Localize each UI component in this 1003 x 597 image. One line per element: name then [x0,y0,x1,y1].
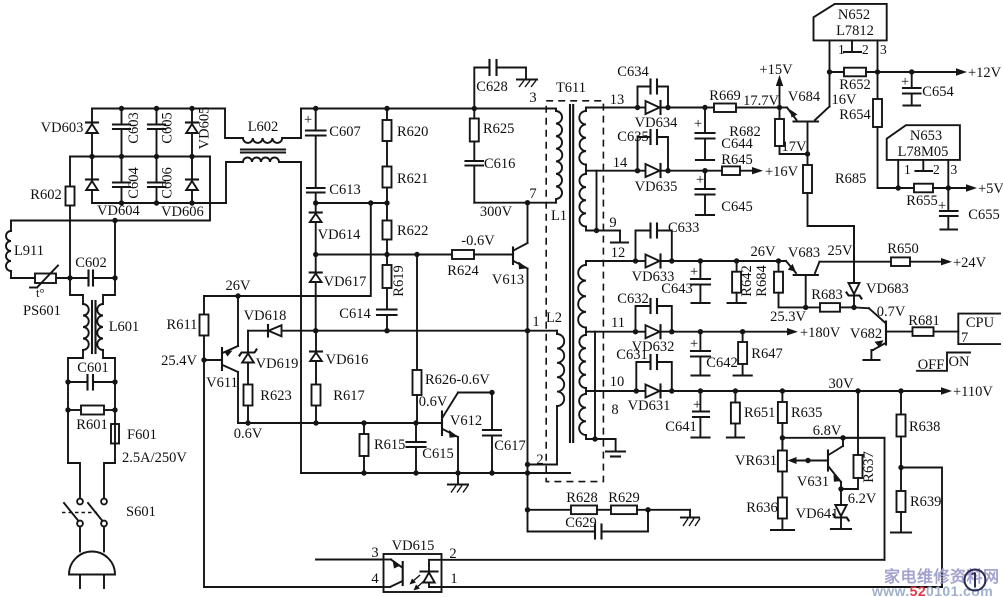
svg-text:+180V: +180V [800,325,841,341]
diode VD616 [310,331,368,385]
svg-text:1: 1 [450,571,457,587]
wire mid rail drop to AC node [11,157,210,221]
svg-text:+16V: +16V [765,164,799,180]
zener VD641 [796,489,851,529]
potentiometer VR631 [735,438,828,498]
node top rail junctions [119,106,124,111]
svg-text:+12V: +12V [968,65,1002,81]
svg-text:C605: C605 [160,112,176,143]
svg-text:VD605: VD605 [197,107,213,150]
wire to switch right [104,463,115,499]
resistor R621 [383,167,429,204]
inductor L601 common mode choke [83,301,139,353]
capacitor C641 [665,388,709,437]
svg-text:+: + [696,172,704,188]
svg-text:R654: R654 [839,107,871,123]
wire row B1 26V line [636,260,646,262]
svg-text:R624: R624 [447,263,479,279]
wire sense to opto line1 [901,468,942,588]
wire 25V line [820,261,892,263]
transistor V611 [204,296,238,423]
svg-text:C655: C655 [968,207,999,223]
diode VD633 [632,255,786,286]
svg-text:R625: R625 [483,121,514,137]
svg-text:VD606: VD606 [161,204,204,220]
svg-text:C642: C642 [706,355,737,371]
resistor R624 [447,250,513,279]
diode VD617 [310,255,367,331]
svg-text:26V: 26V [751,244,777,260]
wire L601 right down [103,350,115,424]
resistor R685 [803,154,866,283]
svg-text:C601: C601 [77,360,108,376]
svg-text:V682: V682 [850,326,882,342]
svg-text:t°: t° [36,286,44,300]
svg-text:3: 3 [371,545,378,561]
resistor R602 [30,157,74,279]
svg-text:C654: C654 [922,84,954,100]
svg-text:C607: C607 [329,124,360,140]
svg-text:+5V: +5V [978,181,1003,197]
resistor R654 [839,72,882,188]
svg-text:14: 14 [613,155,628,171]
resistor R629 [608,490,690,514]
arrow +12V [956,65,1002,81]
resistor R683 [806,287,854,312]
waveform OFF ON [917,353,970,374]
svg-text:1: 1 [838,42,845,57]
svg-text:VD683: VD683 [866,281,909,297]
wire row C +110V line [636,390,645,392]
circled mark [965,570,986,591]
diode VD603 [41,109,98,157]
svg-text:C632: C632 [617,291,648,307]
wire opto pin3 feed [316,559,384,561]
wire main +300V rail [301,108,556,110]
diode VD618 [244,308,287,337]
svg-text:R620: R620 [397,124,428,140]
IC N652 L7812 [814,4,888,72]
wire V613 emitter to pin2 column [527,331,529,510]
svg-text:R601: R601 [76,417,107,433]
svg-text:VD618: VD618 [244,308,287,324]
wire pin 10 [586,390,636,392]
wire top rectifier rail [92,108,225,110]
diode VD614 [310,203,361,255]
arrow +110V [898,384,993,400]
wire bottom rectifier rail [92,202,226,204]
resistor R611 [167,296,209,587]
svg-text:R682: R682 [729,124,760,140]
wire 26V tap [204,203,371,296]
svg-text:R638: R638 [909,419,940,435]
resistor R637 [841,388,877,489]
wire pin 11 [586,331,636,333]
arrow +24V [941,255,987,271]
svg-text:R617: R617 [333,388,364,404]
svg-text:+24V: +24V [953,255,987,271]
svg-text:16V: 16V [832,92,858,108]
svg-text:26V: 26V [226,278,252,294]
svg-text:VD614: VD614 [318,227,361,243]
arrow +180V [787,325,841,341]
svg-text:V684: V684 [788,89,821,105]
svg-text:R629: R629 [608,490,639,506]
diode VD632 [632,325,788,355]
svg-text:R637: R637 [861,451,877,482]
svg-text:R647: R647 [751,346,782,362]
transistor V684 [780,72,830,154]
capacitor C628 [474,60,526,109]
resistor R651 [727,388,776,437]
wire to switch left [68,463,80,499]
node AC line junction [112,218,117,223]
wire C613-VD614 node to R621 node [316,202,387,204]
svg-text:R681: R681 [908,313,939,329]
svg-text:C633: C633 [668,220,699,236]
capacitor C614 [339,306,396,331]
svg-text:V613: V613 [492,272,524,288]
svg-text:C631: C631 [616,347,647,363]
fuse F601 2.5A/250V [111,424,187,466]
svg-text:L78M05: L78M05 [898,144,949,160]
capacitor C604 [113,157,142,204]
wire pin 9 node [586,230,620,232]
svg-text:F601: F601 [127,427,157,443]
svg-text:0.6V: 0.6V [234,426,263,442]
svg-text:C641: C641 [665,419,696,435]
wire L602 top feed [225,109,243,139]
wire opto pin4 feed [204,586,384,588]
winding secondary 11-10 [579,332,586,391]
resistor R650 [887,241,948,266]
svg-text:C635: C635 [617,129,648,145]
svg-text:R655: R655 [906,193,937,209]
capacitor C635 [617,129,668,171]
svg-text:R650: R650 [887,241,918,257]
svg-text:13: 13 [610,92,625,108]
svg-text:6.2V: 6.2V [848,491,877,507]
svg-text:R619: R619 [391,265,407,296]
wire middle rectifier rail [70,156,210,158]
ground pin 8 [606,439,625,457]
svg-text:R639: R639 [910,494,941,510]
transistor V613 [492,203,528,331]
diode VD635 [635,164,705,195]
winding L1 primary [551,109,567,225]
svg-text:7: 7 [529,186,536,202]
svg-text:L602: L602 [248,119,279,135]
CPU box [958,314,1000,346]
winding L2 feedback [546,310,564,465]
wire L601 left down [68,350,83,463]
svg-text:R626-0.6V: R626-0.6V [425,372,490,388]
svg-text:C606: C606 [160,167,176,198]
capacitor C643 [661,258,710,303]
svg-text:VD635: VD635 [635,179,678,195]
svg-text:L601: L601 [109,319,140,335]
wire V612 collector [458,392,492,394]
transistor V631 [797,438,844,492]
wire +5V rail [878,187,915,189]
capacitor C601 [65,360,117,390]
svg-text:+: + [304,112,312,128]
svg-text:300V: 300V [480,204,513,220]
svg-text:C628: C628 [476,79,507,95]
resistor R619 [383,255,408,310]
wire +12V rail [830,71,845,73]
svg-text:C614: C614 [339,306,371,322]
svg-text:17V: 17V [782,139,808,155]
svg-text:R636: R636 [746,500,777,516]
resistor R639 [891,491,941,533]
capacitor C654 [901,72,954,106]
ground C628 [517,80,537,88]
svg-text:C604: C604 [126,167,142,199]
wire winding to VD633 row [586,260,636,262]
svg-text:C643: C643 [661,281,692,297]
svg-text:ON: ON [949,354,970,370]
svg-text:VD619: VD619 [256,356,299,372]
resistor R626 [413,255,491,424]
svg-text:C615: C615 [422,446,453,462]
svg-text:R621: R621 [397,171,428,187]
svg-text:25V: 25V [828,243,854,259]
wire pin 8 [586,438,616,440]
winding secondary 14-9 [579,171,586,231]
svg-text:VR631: VR631 [735,453,777,469]
winding secondary 13-14 [579,108,586,171]
svg-text:+: + [690,336,698,352]
node 25.4V [201,357,206,362]
svg-text:VD631: VD631 [628,398,671,414]
optocoupler VD615 [371,538,457,592]
svg-text:1: 1 [904,162,911,177]
resistor R681 [908,313,958,336]
capacitor C602 [75,255,115,286]
svg-text:R642: R642 [739,265,755,296]
svg-text:2: 2 [862,42,869,57]
pin 2 wire [528,464,558,466]
transistor V683 [786,245,820,310]
svg-text:C602: C602 [75,255,106,271]
wire row A pin13 to VD634 [638,107,646,109]
thermistor PS601 [23,266,61,320]
transformer T611 dashed box [546,101,603,482]
resistor R655 [906,184,973,209]
svg-text:C616: C616 [484,156,515,172]
capacitor C616 [466,156,516,203]
svg-text:R651: R651 [744,405,775,421]
wire pin 14 [586,170,638,172]
svg-text:6.8V: 6.8V [813,423,842,439]
svg-text:L2: L2 [546,310,562,326]
wire AC lower node line [11,277,35,279]
capacitor C655 [938,188,1000,230]
IC N653 L78M05 [887,125,960,188]
svg-text:R683: R683 [811,287,842,303]
svg-text:VD604: VD604 [97,203,140,219]
svg-text:T611: T611 [556,80,586,96]
svg-text:+: + [901,74,909,90]
svg-text:S601: S601 [126,504,156,520]
svg-text:VD615: VD615 [392,538,435,554]
inductor L911 [6,221,44,279]
resistor R652 [839,68,963,93]
resistor R645 [705,152,753,175]
wire row B +180V line [636,331,646,333]
resistor R620 [383,109,429,167]
svg-text:N652: N652 [838,7,870,23]
svg-text:R623: R623 [260,388,291,404]
svg-text:3: 3 [951,162,958,177]
svg-text:R669: R669 [709,88,740,104]
diode VD631 [628,385,948,415]
resistor R682 [729,108,810,157]
svg-text:11: 11 [611,315,625,331]
capacitor C615 [407,423,454,473]
svg-text:R628: R628 [566,490,597,506]
transistor V612 [442,393,482,474]
svg-text:C613: C613 [329,182,360,198]
capacitor C633 [636,220,700,261]
diode VD604 [86,157,140,220]
svg-text:R652: R652 [839,77,870,93]
capacitor C613 [307,182,361,203]
arrow +16V [752,164,799,180]
svg-text:30V: 30V [829,376,855,392]
svg-text:2: 2 [536,452,543,468]
ground R629 [681,510,700,526]
wire VD614 anode row [316,254,452,256]
capacitor C617 [483,393,526,474]
svg-text:R635: R635 [791,405,822,421]
svg-text:L1: L1 [551,208,567,224]
svg-text:+: + [694,116,702,132]
svg-text:3: 3 [529,90,536,106]
svg-text:V612: V612 [450,413,482,429]
svg-text:25.4V: 25.4V [161,353,197,369]
switch S601 [62,499,156,527]
svg-text:C634: C634 [617,64,649,80]
svg-text:+110V: +110V [953,384,993,400]
svg-text:VD616: VD616 [326,352,369,368]
resistor R636 [746,498,794,531]
svg-text:V683: V683 [788,245,820,261]
svg-text:3: 3 [880,42,887,57]
arrow +15V [759,62,793,110]
resistor R669 [705,88,780,112]
svg-text:R615: R615 [374,437,405,453]
svg-text:2: 2 [933,162,940,177]
wire row A2 pin14 [638,170,646,172]
resistor R601 [65,406,117,434]
svg-text:C617: C617 [494,438,525,454]
svg-text:8: 8 [611,402,618,418]
wire 6.8V node line [782,437,884,439]
svg-text:VD617: VD617 [324,274,367,290]
diode VD605 [186,107,213,157]
svg-text:-0.6V: -0.6V [461,233,495,249]
svg-text:R622: R622 [397,223,428,239]
diode VD606 [161,157,204,221]
resistor R684 [754,258,806,307]
svg-text:2.5A/250V: 2.5A/250V [122,450,187,466]
capacitor C629 [528,510,649,539]
svg-text:C629: C629 [565,515,596,531]
transformer core [569,105,571,442]
node R638 R639 [898,465,903,470]
svg-text:+: + [938,198,946,214]
resistor R617 [312,385,365,424]
capacitor C631 [616,347,672,391]
wire primary return long vertical [279,162,301,473]
resistor R628 [525,490,611,514]
winding secondary 26V [578,261,586,332]
svg-text:7: 7 [961,330,968,346]
capacitor C644 [694,105,753,160]
svg-text:R684: R684 [754,265,770,297]
resistor R625 [470,109,515,162]
svg-text:N653: N653 [910,128,942,144]
wire PS601 to R602 node [56,277,88,279]
svg-text:L911: L911 [14,243,44,259]
capacitor C606 [148,157,176,204]
svg-text:VD603: VD603 [41,120,84,136]
svg-text:V611: V611 [206,375,238,391]
wire bottom rail riser to L602 lower winding [226,162,243,203]
wire primary return line [301,472,570,474]
wire opto pin1 out [442,586,943,588]
svg-text:0.6V: 0.6V [419,394,448,410]
zener VD619 [240,331,299,385]
svg-text:C603: C603 [126,112,142,143]
svg-text:R611: R611 [167,317,198,333]
svg-text:C645: C645 [721,199,752,215]
resistor R638 [897,391,941,491]
svg-text:9: 9 [609,215,616,231]
resistor R635 [778,388,823,451]
capacitor C605 [148,109,176,157]
svg-text:12: 12 [611,245,626,261]
ground hot [448,473,468,493]
svg-text:VD641: VD641 [796,506,839,522]
svg-text:25.3V: 25.3V [770,309,806,325]
svg-text:R645: R645 [721,152,752,168]
svg-text:0.7V: 0.7V [877,304,906,320]
svg-text:PS601: PS601 [23,303,61,319]
resistor R642 [728,258,755,303]
inductor L602 top winding [243,119,282,143]
resistor R623 [244,385,292,424]
svg-text:+: + [690,264,698,280]
capacitor C632 [617,291,672,332]
transistor V682 [850,307,913,360]
svg-text:+: + [693,397,701,413]
resistor R647 [734,329,783,376]
svg-text:L7812: L7812 [836,23,874,39]
arrow +5V [966,181,1003,197]
wire AC node riser right [114,221,116,279]
capacitor C645 [696,168,753,215]
capacitor C607 electrolytic [304,109,361,189]
wire C602 node to L601 right [103,278,115,304]
svg-text:V631: V631 [797,474,829,490]
wire pin 13 [586,107,638,109]
capacitor C634 [617,64,668,108]
AC plug [69,527,115,589]
svg-text:17.7V: 17.7V [743,93,779,109]
